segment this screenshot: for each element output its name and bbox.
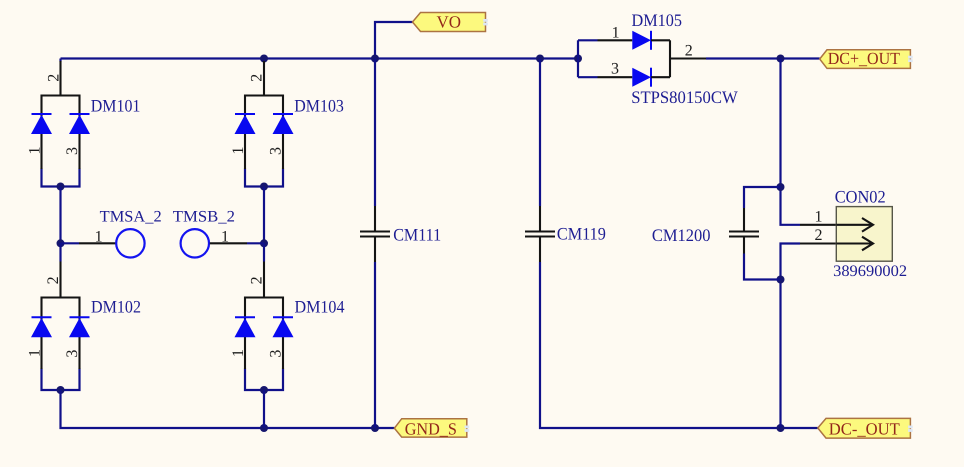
svg-text:1: 1: [230, 349, 247, 357]
junction GND_S at bottom bus: [371, 424, 379, 432]
capacitor CM119: [525, 206, 555, 262]
svg-text:TMSA_2: TMSA_2: [100, 209, 162, 226]
test point TMSB_2: [181, 229, 209, 257]
pin line TMSA_2: [79, 242, 116, 244]
connector CON02: [836, 207, 892, 262]
svg-text:1: 1: [26, 349, 43, 357]
junction left TMS row: [57, 239, 65, 247]
junction CM1200 bottom: [777, 276, 785, 284]
wire CM111 lower: [374, 262, 376, 428]
svg-text:CM1200: CM1200: [652, 225, 711, 245]
junction CM1200 top: [777, 183, 785, 191]
svg-text:DC+_OUT: DC+_OUT: [828, 49, 901, 68]
svg-text:1: 1: [26, 147, 43, 155]
wire DM103 bottom to TMS row: [263, 187, 265, 244]
node marker GND_S flag: [465, 426, 470, 432]
junction DC+ column at output: [777, 55, 785, 63]
svg-text:VO: VO: [437, 13, 462, 32]
svg-text:DC-_OUT: DC-_OUT: [829, 420, 901, 439]
pin line CON02 pin1: [800, 224, 836, 226]
wire DM101 bottom to TMS row: [59, 187, 61, 244]
junction DM102 bottom: [57, 386, 65, 394]
svg-text:3: 3: [64, 350, 81, 358]
svg-text:3: 3: [268, 147, 285, 155]
wire top bus from DM101 to DM105: [61, 57, 579, 59]
wire CM119 upper: [539, 59, 541, 207]
svg-text:3: 3: [611, 61, 619, 78]
svg-text:389690002: 389690002: [833, 263, 907, 280]
wire TMSA_2 pin stub: [61, 242, 80, 244]
junction VO column at top bus: [371, 55, 379, 63]
diode pair DM105: [578, 31, 706, 87]
svg-text:STPS80150CW: STPS80150CW: [631, 87, 738, 107]
junction right TMS row: [260, 239, 268, 247]
junction DM103 bottom: [260, 183, 268, 191]
svg-text:1: 1: [815, 209, 823, 226]
wire TMSB_2 pin stub: [247, 242, 264, 244]
wire DM102 bottom bracket: [42, 369, 80, 391]
svg-text:DM104: DM104: [295, 297, 345, 317]
svg-text:DM103: DM103: [294, 95, 344, 115]
capacitor CM1200: [729, 208, 759, 254]
svg-text:TMSB_2: TMSB_2: [173, 209, 235, 226]
diode pack DM103: [235, 61, 294, 169]
pin line TMSB_2: [210, 242, 247, 244]
net label DC-_OUT: [818, 418, 911, 438]
test point TMSA_2: [116, 229, 144, 257]
svg-text:GND_S: GND_S: [405, 420, 457, 439]
pin line CON02 pin2: [800, 242, 836, 244]
svg-text:3: 3: [64, 147, 81, 155]
svg-text:1: 1: [221, 229, 229, 246]
svg-text:3: 3: [268, 350, 285, 358]
junction DC- column at bottom bus: [777, 424, 785, 432]
svg-text:2: 2: [45, 276, 62, 284]
node marker DC+_OUT flag: [908, 56, 913, 62]
junction DM101 bottom: [57, 183, 65, 191]
net label DC+_OUT: [820, 49, 911, 68]
svg-text:DM105: DM105: [632, 10, 683, 30]
diode pack DM102: [31, 262, 90, 370]
wire DM105 output to DC+_OUT: [706, 57, 820, 59]
wire TMS row to DM102: [59, 243, 61, 261]
svg-text:2: 2: [249, 74, 266, 82]
wire DM104 to bottom bus: [263, 390, 265, 428]
svg-text:1: 1: [95, 229, 103, 246]
svg-text:2: 2: [685, 43, 693, 60]
svg-text:DM101: DM101: [91, 95, 141, 115]
net label GND_S: [394, 419, 466, 439]
wire CM1200 bottom bracket: [744, 254, 781, 280]
svg-text:DM102: DM102: [91, 297, 141, 317]
wire CM119 lower to DC- bus: [540, 262, 818, 428]
svg-text:CON02: CON02: [835, 186, 886, 206]
diode pack DM104: [235, 262, 294, 370]
node marker VO flag: [483, 19, 488, 25]
wire DM103 riser: [263, 59, 265, 62]
svg-text:CM119: CM119: [557, 224, 606, 244]
svg-text:1: 1: [612, 25, 620, 42]
wire DM102 to bottom bus: [61, 390, 395, 428]
junction DM104 column at bottom bus: [260, 424, 268, 432]
wire DM103 bottom bracket: [245, 169, 283, 187]
capacitor CM111: [360, 206, 390, 262]
net label VO: [413, 13, 486, 32]
svg-text:CM111: CM111: [393, 225, 441, 245]
wire left column riser x=60.5: [59, 59, 61, 62]
wire right column lower riser: [781, 244, 801, 429]
wire right column upper riser: [781, 59, 801, 225]
wire VO stub: [375, 22, 413, 59]
svg-text:2: 2: [45, 74, 62, 82]
svg-text:1: 1: [230, 147, 247, 155]
wire DM101 bottom bracket: [42, 169, 80, 187]
node marker DC-_OUT flag: [908, 426, 913, 432]
junction DM103 top: [260, 55, 268, 63]
wire DM104 bottom bracket: [245, 369, 283, 391]
diode pack DM101: [31, 61, 90, 169]
junction CM119 column at top bus: [536, 55, 544, 63]
svg-text:2: 2: [249, 276, 266, 284]
wire TMS row to DM104: [263, 243, 265, 261]
wire CM1200 top bracket: [744, 187, 781, 208]
junction DM104 bottom: [260, 386, 268, 394]
junction DM105 bracket: [574, 55, 582, 63]
svg-text:2: 2: [815, 227, 823, 244]
wire CM111 upper: [374, 59, 376, 207]
